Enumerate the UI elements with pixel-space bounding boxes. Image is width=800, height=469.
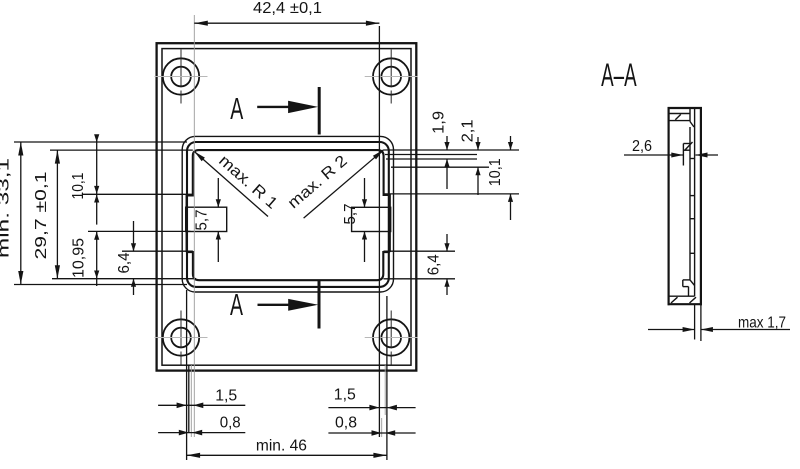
svg-text:5,7: 5,7 xyxy=(194,209,211,230)
svg-text:6,4: 6,4 xyxy=(426,254,443,275)
svg-text:A–A: A–A xyxy=(601,57,637,93)
svg-text:6,4: 6,4 xyxy=(116,252,133,273)
svg-text:42,4 ±0,1: 42,4 ±0,1 xyxy=(253,0,322,17)
svg-text:min. 46: min. 46 xyxy=(256,438,307,455)
svg-text:1,5: 1,5 xyxy=(334,387,356,404)
svg-text:min. 33,1: min. 33,1 xyxy=(0,158,13,258)
svg-text:max 1,7: max 1,7 xyxy=(738,315,786,332)
svg-text:10,1: 10,1 xyxy=(487,158,504,186)
svg-text:2,1: 2,1 xyxy=(459,119,476,142)
svg-text:29,7 ±0,1: 29,7 ±0,1 xyxy=(33,171,50,259)
svg-text:A: A xyxy=(230,91,243,126)
svg-text:0,8: 0,8 xyxy=(335,415,357,432)
svg-text:1,9: 1,9 xyxy=(431,111,448,134)
svg-text:2,6: 2,6 xyxy=(632,138,652,155)
svg-text:5,7: 5,7 xyxy=(342,203,359,224)
svg-text:0,8: 0,8 xyxy=(220,414,241,431)
svg-text:10,95: 10,95 xyxy=(70,238,87,278)
svg-text:A: A xyxy=(230,287,243,322)
svg-text:1,5: 1,5 xyxy=(215,388,237,405)
svg-text:10,1: 10,1 xyxy=(70,172,87,199)
